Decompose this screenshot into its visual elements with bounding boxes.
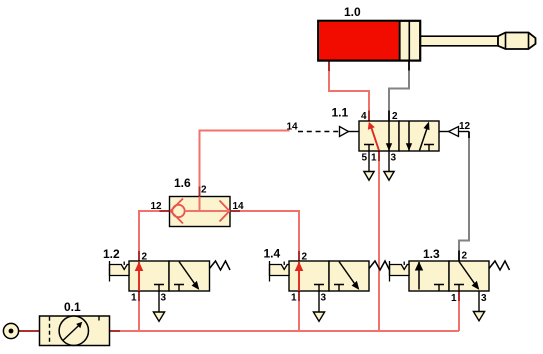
wire: 1.6 port 14 to 1.4 port 2 bbox=[230, 211, 299, 261]
svg-text:2: 2 bbox=[201, 185, 207, 196]
cylinder 1.0 piston bbox=[399, 22, 401, 61]
wire: pilot 12 grey line down to 1.3 port 2 bbox=[459, 138, 469, 251]
svg-text:5: 5 bbox=[362, 153, 368, 164]
valve 1.3 spring bbox=[489, 261, 510, 270]
valve 1.2 spring bbox=[210, 261, 231, 270]
svg-text:12: 12 bbox=[459, 121, 471, 132]
svg-text:1: 1 bbox=[291, 293, 297, 304]
wire: 1.1 port 1 riser to bus bbox=[378, 151, 380, 331]
valve 1.2 exhaust port 3 bbox=[158, 291, 160, 312]
valve 1.1 pilot 12 triangle bbox=[439, 131, 449, 133]
valve 1.1 right box down arrow bbox=[408, 122, 410, 151]
valve 1.1 flow 1 to 4 (red diagonal) bbox=[371, 126, 379, 151]
svg-text:2: 2 bbox=[142, 252, 148, 263]
valve 1.1 pilot 14 triangle bbox=[340, 127, 349, 137]
valve 1.4 right box blocked T bbox=[334, 285, 344, 292]
valve 1.1 pilot 14 dashed line bbox=[298, 131, 339, 133]
wire: 1.2 port 2 to 1.6 port 12 bbox=[139, 211, 170, 261]
wire: 1.4 port 1 riser to bus bbox=[298, 291, 300, 331]
shuttle 1.6 port 2 internal line bbox=[199, 197, 201, 212]
valve 1.4 spring bbox=[369, 261, 390, 270]
valve 1.2 (3/2 way, detent, spring return) bbox=[110, 261, 231, 321]
svg-text:2: 2 bbox=[462, 251, 468, 262]
valve 1.4 flow arrow 1 to 2 (red) bbox=[298, 262, 300, 291]
valve 1.3 (3/2 way, detent, spring return, rest position) bbox=[390, 261, 510, 321]
valve 1.2 right box diagonal 2-3 bbox=[179, 262, 195, 284]
valve 1.2 right box blocked T bbox=[174, 285, 184, 292]
valve 1.4 right box diagonal 2-3 bbox=[339, 262, 355, 284]
svg-text:12: 12 bbox=[151, 201, 163, 212]
svg-text:1.0: 1.0 bbox=[344, 5, 361, 19]
svg-text:3: 3 bbox=[161, 293, 167, 304]
svg-text:1.1: 1.1 bbox=[332, 106, 349, 120]
valve 1.3 left box arrow (black) bbox=[418, 262, 420, 290]
shuttle valve 1.6 bbox=[170, 197, 231, 227]
valve 1.4 body bbox=[289, 261, 329, 291]
valve 1.4 exhaust port 3 bbox=[318, 291, 320, 312]
svg-text:4: 4 bbox=[361, 111, 367, 122]
valve 1.1 exhaust port 3 bbox=[388, 151, 390, 172]
shuttle 1.6 ball bbox=[172, 205, 184, 217]
cylinder 1.0 rod bbox=[410, 36, 499, 46]
valve 1.2 flow arrow 1 to 2 (red) bbox=[138, 262, 140, 291]
svg-text:3: 3 bbox=[321, 293, 327, 304]
svg-text:1.2: 1.2 bbox=[103, 247, 120, 261]
shuttle 1.6 right seat bbox=[220, 201, 230, 222]
wire: 1.3 port 1 riser to bus bbox=[458, 291, 460, 331]
svg-text:1: 1 bbox=[131, 293, 137, 304]
valve 1.2 detent actuator bbox=[110, 265, 130, 276]
shuttle 1.6 left seat bbox=[171, 199, 184, 224]
wire: dark connection stubs bbox=[139, 61, 459, 301]
valve 1.1 right box blocked T bbox=[424, 145, 434, 152]
cylinder 1.0 (single acting, extended) bbox=[318, 21, 535, 61]
valve 1.1 body bbox=[359, 121, 399, 151]
valve 1.3 body bbox=[409, 261, 449, 291]
valve 1.1 right box diagonal arrow bbox=[420, 129, 427, 151]
shuttle 1.6 flow line to port 14 bbox=[185, 210, 230, 212]
wire: dark stub 0.1 outlet bbox=[110, 330, 121, 332]
svg-text:2: 2 bbox=[302, 252, 308, 263]
valve 1.4 blocked port 3 T bbox=[314, 285, 324, 292]
valve 1.4 detent actuator bbox=[270, 265, 290, 276]
svg-text:3: 3 bbox=[391, 153, 397, 164]
valve 1.3 blocked port 1 T bbox=[454, 285, 464, 292]
wire: 1.1 port 4 to cylinder left port bbox=[329, 61, 369, 121]
cylinder 1.0 barrel bbox=[318, 21, 420, 61]
valve 1.3 right box diagonal 2-3 bbox=[459, 262, 475, 284]
svg-text:1: 1 bbox=[371, 153, 377, 164]
svg-text:1.6: 1.6 bbox=[174, 176, 191, 190]
valve 1.1 flow 2 to 3 arrow bbox=[388, 122, 390, 151]
valve 1.2 body bbox=[129, 261, 169, 291]
valve 1.3 detent actuator bbox=[390, 265, 410, 276]
wire: supply bus from 0.1 to valve 1.3 riser bbox=[110, 330, 460, 332]
svg-text:1.3: 1.3 bbox=[423, 247, 440, 261]
svg-text:1: 1 bbox=[451, 293, 457, 304]
wire: 1.2 port 1 riser to bus bbox=[138, 291, 140, 331]
wire: cylinder right port to 1.1 port 2 (grey) bbox=[389, 71, 409, 111]
valve 1.1 blocked port 5 T bbox=[364, 145, 374, 152]
svg-text:1.4: 1.4 bbox=[264, 247, 281, 261]
valve 1.4 (3/2 way, detent, spring return) bbox=[270, 261, 390, 321]
wire: source to 0.1 bbox=[19, 330, 40, 332]
svg-text:2: 2 bbox=[392, 111, 398, 122]
svg-text:0.1: 0.1 bbox=[64, 300, 81, 314]
cylinder 1.0 pressurized chamber bbox=[319, 22, 398, 60]
svg-text:3: 3 bbox=[481, 293, 487, 304]
valve 1.3 left box blocked T bbox=[434, 285, 444, 292]
valve 1.1 (5/2 way, pilot operated both sides) bbox=[298, 121, 469, 180]
valve 1.1 exhaust port 5 bbox=[368, 151, 370, 172]
cylinder 1.0 rod end knob bbox=[498, 33, 536, 50]
valve 1.2 blocked port 3 T bbox=[154, 285, 164, 292]
air service unit 0.1 bbox=[40, 316, 110, 346]
valve 1.3 exhaust port 3 bbox=[478, 291, 480, 312]
wire: 1.6 port 2 up to pilot line 14 bbox=[200, 131, 290, 197]
svg-text:14: 14 bbox=[287, 122, 299, 133]
compressed air source bbox=[3, 323, 18, 338]
svg-text:14: 14 bbox=[233, 201, 245, 212]
